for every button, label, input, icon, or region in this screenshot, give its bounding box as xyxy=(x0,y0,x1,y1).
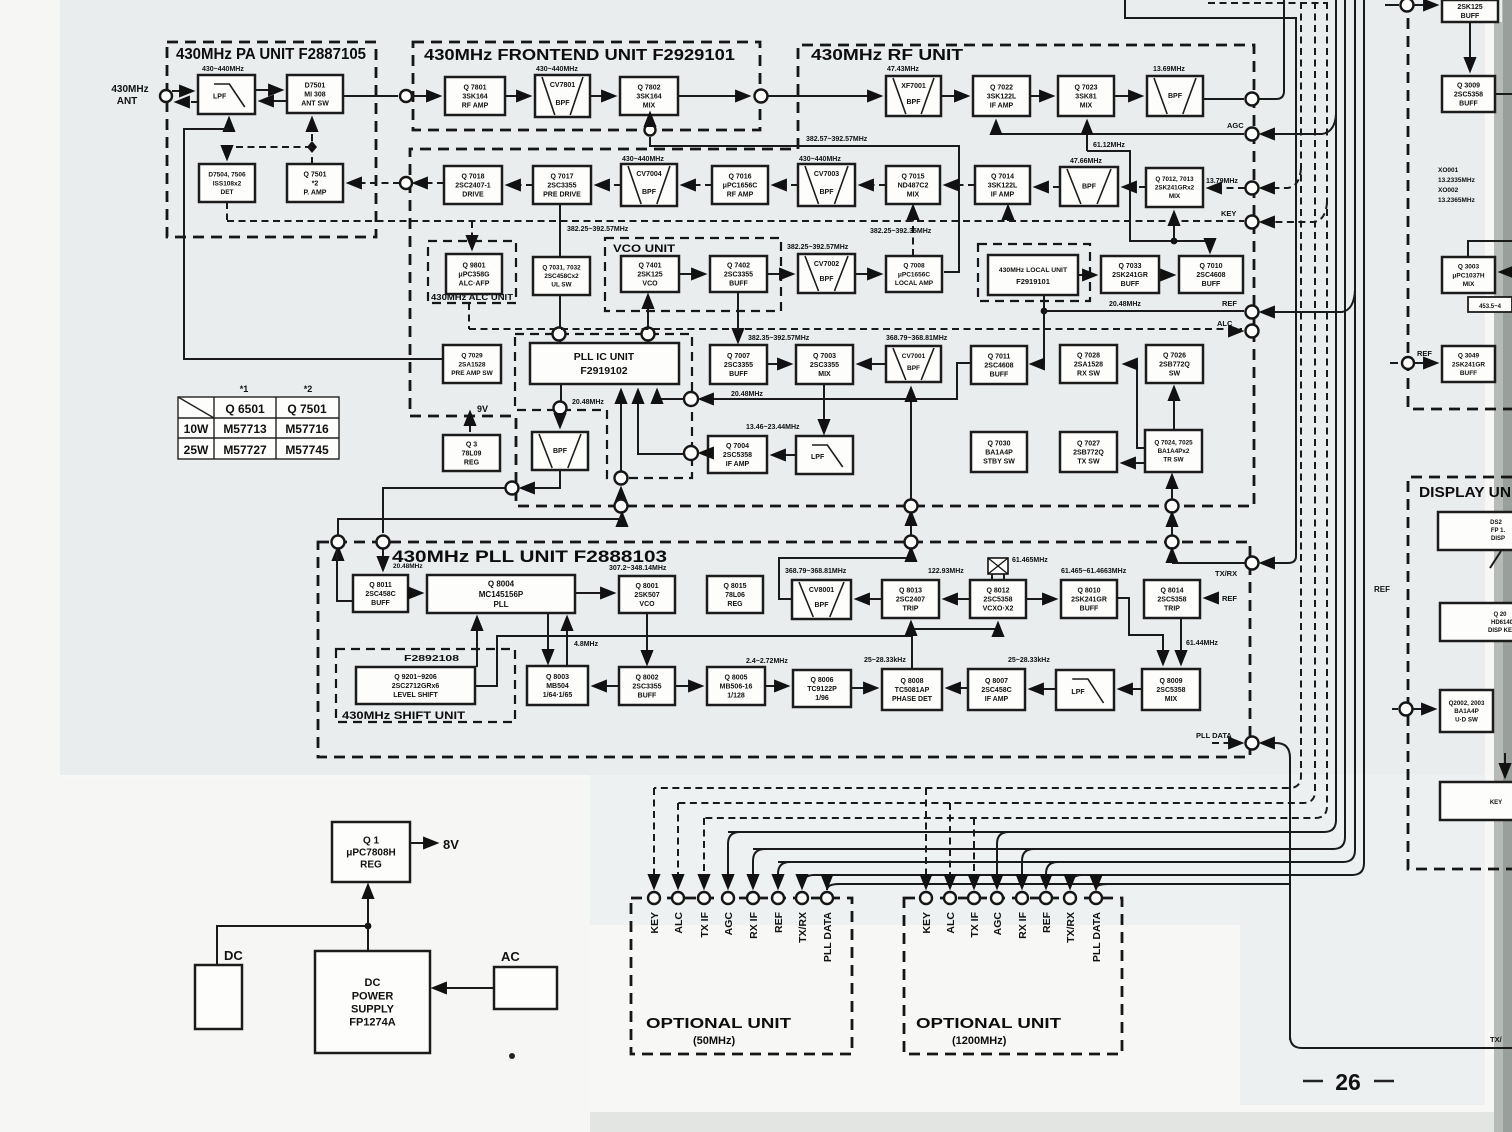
block 453.5 filter xyxy=(1468,297,1512,312)
wire pll unit 20.48 run xyxy=(338,519,622,535)
svg-text:2SC2712GRx6: 2SC2712GRx6 xyxy=(392,683,440,690)
wire Q3009 out xyxy=(1495,93,1512,95)
svg-text:Q 7026: Q 7026 xyxy=(1163,352,1186,359)
svg-text:MIX: MIX xyxy=(643,103,656,110)
wire Q7018 to node xyxy=(414,182,444,184)
svg-text:Q 7030: Q 7030 xyxy=(988,440,1011,447)
svg-text:BPF: BPF xyxy=(820,276,835,283)
svg-text:2SB772Q: 2SB772Q xyxy=(1073,449,1104,456)
wire LPF25 to Q8007 xyxy=(1030,688,1056,690)
wire node b down xyxy=(337,549,353,601)
block Q7003 xyxy=(796,345,853,384)
svg-text:TR SW: TR SW xyxy=(1163,457,1183,464)
svg-text:SUPPLY: SUPPLY xyxy=(351,1003,395,1015)
svg-text:M57713: M57713 xyxy=(223,422,267,436)
svg-text:BPF: BPF xyxy=(907,365,920,372)
wire VCXO to Q8013 xyxy=(944,598,970,600)
svg-text:RX SW: RX SW xyxy=(1077,371,1100,378)
pin AGC xyxy=(722,892,734,904)
svg-text:430MHz SHIFT UNIT: 430MHz SHIFT UNIT xyxy=(342,710,465,722)
drop TXIF u1 xyxy=(703,818,705,888)
svg-text:PLL: PLL xyxy=(493,600,508,609)
svg-text:AC: AC xyxy=(501,949,520,964)
block Q3REG xyxy=(443,435,500,471)
scanned page background tint xyxy=(55,0,1485,775)
bus dashed ALC fan xyxy=(678,2,1315,803)
bus dashed TXIF fan xyxy=(704,2,1327,818)
svg-text:Q 7801: Q 7801 xyxy=(464,84,487,91)
svg-text:*2: *2 xyxy=(304,384,313,394)
wire dot to Q1 xyxy=(367,885,369,926)
svg-text:*2: *2 xyxy=(312,180,319,187)
svg-text:ALC: ALC xyxy=(945,912,957,934)
wire TXRX up2 xyxy=(1171,515,1173,535)
block Q8001 xyxy=(619,576,675,613)
svg-text:3SK122L: 3SK122L xyxy=(987,93,1017,100)
wire Q8009 to LPF25 xyxy=(1119,688,1142,690)
svg-text:ANT: ANT xyxy=(117,96,138,107)
svg-text:Q 7028: Q 7028 xyxy=(1077,352,1100,359)
svg-text:Q 8015: Q 8015 xyxy=(724,583,747,590)
node 20.48 pll unit xyxy=(506,482,519,495)
wire LOCAL to Q7033 xyxy=(1078,274,1096,276)
svg-text:Q 7011: Q 7011 xyxy=(988,353,1011,360)
node UL SW pll xyxy=(553,328,566,341)
wire disp key arrow xyxy=(1504,753,1506,777)
svg-text:AGC: AGC xyxy=(1227,121,1244,130)
wire Q7022 to Q7023 xyxy=(1030,95,1053,97)
svg-text:2SC5358: 2SC5358 xyxy=(1454,91,1483,98)
unit boundary: OPTIONAL UNIT (1200MHz) xyxy=(904,898,1122,1054)
block Q8011 xyxy=(353,575,408,612)
wire CV7003 to Q7016 xyxy=(773,184,798,186)
wire Q7003 to LPF xyxy=(823,384,825,433)
unit boundary: 144MHz section (right, cut) xyxy=(1408,0,1512,409)
svg-text:OPTIONAL UNIT: OPTIONAL UNIT xyxy=(646,1015,791,1032)
svg-text:HD6140: HD6140 xyxy=(1491,620,1512,626)
block Q8015 xyxy=(707,576,763,613)
wire PLL IC to BPF node xyxy=(560,384,562,401)
svg-text:2SB772Q: 2SB772Q xyxy=(1159,361,1190,368)
block Q7004 xyxy=(708,436,767,473)
wire Q8001 to Q8002 xyxy=(646,613,648,664)
node TX drive xyxy=(400,177,412,189)
block Q8003 xyxy=(527,666,588,705)
wire to U-D SW xyxy=(1392,708,1398,710)
wire Q8011 to Q8004 xyxy=(408,592,422,594)
svg-text:MC145156P: MC145156P xyxy=(479,590,524,599)
svg-text:368.79~368.81MHz: 368.79~368.81MHz xyxy=(785,568,847,575)
pin TX IF xyxy=(968,892,980,904)
svg-text:2SC3355: 2SC3355 xyxy=(810,362,839,369)
svg-text:13.79MHz: 13.79MHz xyxy=(1206,178,1238,185)
wire node to 2SK125 xyxy=(1414,4,1437,6)
block Q8014 xyxy=(1144,580,1200,618)
svg-text:382.35~392.57MHz: 382.35~392.57MHz xyxy=(748,335,810,342)
svg-text:PLL IC UNIT: PLL IC UNIT xyxy=(574,351,635,363)
svg-text:LPF: LPF xyxy=(1071,689,1085,696)
svg-text:10W: 10W xyxy=(184,422,209,436)
svg-text:CV7001: CV7001 xyxy=(902,353,926,360)
svg-text:REF: REF xyxy=(1222,594,1237,603)
wire ANT SW output to frontend xyxy=(343,95,398,97)
wire levelshift q8013 arrow xyxy=(910,623,912,636)
block XF7001 xyxy=(886,76,941,116)
table PA module options xyxy=(178,384,339,459)
svg-text:2SK241GR: 2SK241GR xyxy=(1071,596,1107,603)
svg-text:2SA1528: 2SA1528 xyxy=(458,361,485,368)
svg-text:TX SW: TX SW xyxy=(1077,459,1100,466)
wire Q7012 to BPF47 xyxy=(1123,186,1146,188)
wire TRSW to Q7026 xyxy=(1173,387,1175,430)
junction REF xyxy=(1041,308,1048,315)
block Q7501 xyxy=(287,164,343,202)
svg-text:78L09: 78L09 xyxy=(462,450,482,457)
unit boundary: 430MHz ALC UNIT xyxy=(428,241,516,303)
speck xyxy=(509,1053,515,1059)
svg-text:368.79~368.81MHz: 368.79~368.81MHz xyxy=(886,335,948,342)
svg-text:430MHz PLL UNIT F2888103: 430MHz PLL UNIT F2888103 xyxy=(392,547,667,566)
svg-text:430MHz LOCAL UNIT: 430MHz LOCAL UNIT xyxy=(999,267,1068,274)
wire XF7001 to Q7022 xyxy=(941,95,968,97)
node rf bottom tx xyxy=(905,500,918,513)
svg-text:U·D SW: U·D SW xyxy=(1455,717,1478,724)
svg-text:Q 3: Q 3 xyxy=(466,441,477,448)
block Q8010 xyxy=(1061,580,1117,618)
svg-text:POWER: POWER xyxy=(352,990,394,1002)
wire PRE AMP SW feed xyxy=(184,129,443,359)
drop TXIF u2 xyxy=(973,818,975,888)
svg-text:Q 7501: Q 7501 xyxy=(287,402,327,416)
svg-text:26: 26 xyxy=(1335,1069,1361,1095)
block CV7002 xyxy=(798,254,855,293)
svg-text:CV7003: CV7003 xyxy=(814,171,839,178)
wire Q7801 to CV7801 xyxy=(505,95,530,97)
svg-text:BUFF: BUFF xyxy=(1461,13,1480,20)
node pin b xyxy=(332,536,345,549)
svg-text:CV7002: CV7002 xyxy=(814,261,839,268)
bus PLL DATA bottom xyxy=(1290,1036,1512,1048)
node pll bottom xyxy=(615,472,628,485)
svg-text:78L06: 78L06 xyxy=(725,592,745,599)
svg-text:2.4~2.72MHz: 2.4~2.72MHz xyxy=(746,658,788,665)
svg-text:20.48MHz: 20.48MHz xyxy=(731,391,763,398)
block DCBOX xyxy=(195,965,242,1029)
svg-text:2SC5358: 2SC5358 xyxy=(723,452,752,459)
block Q3003 xyxy=(1442,257,1495,293)
block Q8013 xyxy=(882,580,939,618)
terminal IF out xyxy=(1246,93,1259,106)
wire TX drive node to P.AMP xyxy=(348,182,400,184)
block Q7029 xyxy=(443,345,501,383)
svg-text:IF AMP: IF AMP xyxy=(726,461,750,468)
block LPF13 xyxy=(796,436,853,474)
svg-text:20.48MHz: 20.48MHz xyxy=(572,399,604,406)
svg-text:2SC3355: 2SC3355 xyxy=(547,182,576,189)
svg-text:BPF: BPF xyxy=(553,448,568,455)
svg-text:1/128: 1/128 xyxy=(727,693,745,700)
svg-text:430MHz RF UNIT: 430MHz RF UNIT xyxy=(811,47,963,64)
wire LPF to ANT SW xyxy=(255,89,282,91)
wire REF to Q3049 xyxy=(1415,362,1437,364)
svg-text:Q 8011: Q 8011 xyxy=(369,582,392,589)
svg-text:382.25~392.57MHz: 382.25~392.57MHz xyxy=(787,244,849,251)
pin AGC xyxy=(991,892,1003,904)
block Q7802 xyxy=(620,77,678,115)
wire Q8005 to Q8006 xyxy=(765,685,788,687)
wire diamond to ANT SW xyxy=(311,118,313,141)
svg-text:LEVEL SHIFT: LEVEL SHIFT xyxy=(393,692,438,699)
wire levelshift to Q8004 xyxy=(476,617,478,667)
wire KEY to Q7014 xyxy=(1007,206,1009,221)
wire DET to KEY line xyxy=(226,202,228,220)
svg-text:BPF: BPF xyxy=(820,189,835,196)
unit boundary: DISPLAY UNIT xyxy=(1408,477,1512,869)
wire pin to Q8011 xyxy=(382,549,384,570)
svg-text:BPF: BPF xyxy=(1168,93,1183,100)
pin PLL DATA xyxy=(821,892,833,904)
bus dashed KEY fan xyxy=(654,2,1301,788)
svg-text:430MHz: 430MHz xyxy=(111,84,148,95)
svg-text:4.8MHz: 4.8MHz xyxy=(574,641,599,648)
svg-text:Q 7501: Q 7501 xyxy=(304,171,327,178)
pin RX IF xyxy=(747,892,759,904)
wire REF to Q7011 xyxy=(1031,311,1044,364)
svg-text:IF AMP: IF AMP xyxy=(985,696,1009,703)
block Q7007 xyxy=(710,345,767,384)
svg-text:Q 3003: Q 3003 xyxy=(1458,264,1480,271)
svg-text:MIX: MIX xyxy=(1165,696,1178,703)
block LPF7500 xyxy=(198,75,255,114)
svg-text:KEY: KEY xyxy=(1490,800,1502,806)
svg-text:BUFF: BUFF xyxy=(1121,281,1140,288)
wire Q7008 to Q7015 MIX xyxy=(912,206,914,256)
svg-text:LPF: LPF xyxy=(213,94,227,101)
bus REF branch to terminal xyxy=(1261,290,1355,312)
net KEY line xyxy=(227,220,1244,222)
svg-text:PRE DRIVE: PRE DRIVE xyxy=(543,192,581,199)
wire 20.48 return up3 xyxy=(621,516,623,519)
terminal PLL DATA xyxy=(1246,737,1259,750)
svg-text:ALC: ALC xyxy=(673,912,685,934)
svg-text:BPF: BPF xyxy=(642,189,657,196)
wire ANT to LPF (TX) xyxy=(172,90,193,92)
svg-text:Q 7012, 7013: Q 7012, 7013 xyxy=(1155,176,1194,183)
svg-text:KEY: KEY xyxy=(1221,209,1236,218)
svg-text:1/96: 1/96 xyxy=(815,695,829,702)
svg-text:Q 8014: Q 8014 xyxy=(1161,587,1184,594)
svg-text:Q 7802: Q 7802 xyxy=(638,84,661,91)
wire Q7017 to Q7018 xyxy=(507,184,533,186)
wire P.AMP to diamond xyxy=(311,153,313,164)
block PSU xyxy=(315,951,430,1053)
svg-text:Q 3009: Q 3009 xyxy=(1457,82,1480,89)
wire 61.12 arrow Q7010 xyxy=(1209,244,1211,252)
node LO injection xyxy=(645,125,656,136)
svg-text:(50MHz): (50MHz) xyxy=(693,1035,736,1047)
svg-text:Q 8002: Q 8002 xyxy=(636,674,659,681)
block UDSW xyxy=(1440,690,1493,732)
wire tx offset up2 xyxy=(910,513,912,535)
svg-text:TX/RX: TX/RX xyxy=(1065,912,1077,943)
svg-text:Q 7016: Q 7016 xyxy=(729,173,752,180)
bus KEY branch xyxy=(1261,202,1327,222)
svg-text:BA1A4P: BA1A4P xyxy=(985,449,1013,456)
crystal X8001 xyxy=(988,558,1008,574)
svg-text:Q 8012: Q 8012 xyxy=(987,587,1010,594)
svg-text:2SC2407-1: 2SC2407-1 xyxy=(455,182,491,189)
svg-text:Q 8005: Q 8005 xyxy=(725,674,748,681)
svg-text:382.57~392.57MHz: 382.57~392.57MHz xyxy=(806,136,868,143)
block Q7010 xyxy=(1179,256,1243,293)
svg-text:CV8001: CV8001 xyxy=(809,587,834,594)
svg-text:TX IF: TX IF xyxy=(969,911,981,937)
wire tune to Q7401 xyxy=(647,295,649,327)
svg-text:RF AMP: RF AMP xyxy=(727,192,754,199)
svg-text:Q 3049: Q 3049 xyxy=(1458,353,1480,360)
wire Q8007 to Q8008 xyxy=(947,687,968,689)
terminal TX/RX xyxy=(1246,557,1259,570)
svg-text:TX/RX: TX/RX xyxy=(1215,569,1237,578)
svg-text:PHASE DET: PHASE DET xyxy=(892,696,933,703)
node frontend output xyxy=(755,90,768,103)
pin TX IF xyxy=(698,892,710,904)
svg-text:F2892108: F2892108 xyxy=(404,653,459,663)
svg-text:BUFF: BUFF xyxy=(990,372,1009,379)
svg-text:Q 20: Q 20 xyxy=(1493,612,1507,618)
net REF 20.48 xyxy=(1044,310,1244,312)
svg-text:Q 6501: Q 6501 xyxy=(225,402,265,416)
unit boundary: 430MHz RF UNIT (L-shape) xyxy=(410,45,1254,506)
wire ANT SW to LPF xyxy=(260,100,287,102)
wire REF to Q8014 xyxy=(1205,597,1219,599)
svg-text:BUFF: BUFF xyxy=(1459,101,1478,108)
svg-text:2SC2407: 2SC2407 xyxy=(896,596,925,603)
svg-text:Q 7023: Q 7023 xyxy=(1075,84,1098,91)
block CV7801 xyxy=(535,75,590,117)
wire 20.48 return up1 xyxy=(620,390,622,471)
svg-text:2SC4608: 2SC4608 xyxy=(1196,272,1225,279)
svg-text:OPTIONAL UNIT: OPTIONAL UNIT xyxy=(916,1015,1061,1032)
unit boundary: 430MHz SHIFT UNIT xyxy=(336,649,515,722)
wire UL SW to PLL IC xyxy=(559,295,561,343)
svg-text:REF: REF xyxy=(1041,911,1053,933)
svg-text:MIX: MIX xyxy=(1463,281,1475,288)
wire Q8013 to CV8001 xyxy=(856,598,882,600)
block Q1REG xyxy=(332,822,410,882)
svg-text:LPF: LPF xyxy=(811,454,825,461)
svg-text:13.46~23.44MHz: 13.46~23.44MHz xyxy=(746,424,800,431)
svg-text:13.2365MHz: 13.2365MHz xyxy=(1438,197,1476,204)
block TRSW xyxy=(1145,430,1202,472)
svg-text:DC: DC xyxy=(365,977,381,989)
svg-text:μPC1656C: μPC1656C xyxy=(898,271,930,278)
block Q7031 xyxy=(533,257,590,295)
wire to Q8011 col xyxy=(383,488,505,533)
block Q7011 xyxy=(971,346,1027,384)
svg-text:Q 8013: Q 8013 xyxy=(899,587,922,594)
svg-text:BA1A4P: BA1A4P xyxy=(1454,708,1478,715)
wire Q8006 to Q8008 xyxy=(851,687,877,689)
pin KEY xyxy=(920,892,932,904)
wire Q7016 to CV7004 xyxy=(682,184,712,186)
svg-text:D7501: D7501 xyxy=(305,82,326,89)
svg-text:Q 7008: Q 7008 xyxy=(903,263,925,270)
svg-text:122.93MHz: 122.93MHz xyxy=(928,568,964,575)
svg-text:MIX: MIX xyxy=(818,371,831,378)
svg-text:RX IF: RX IF xyxy=(748,911,760,938)
wire Q7033 to Q7010 xyxy=(1159,274,1174,276)
svg-text:Q 8010: Q 8010 xyxy=(1078,587,1101,594)
svg-text:TRIP: TRIP xyxy=(1164,606,1180,613)
block CV8001 xyxy=(792,580,851,619)
wire Q8003-Q8004 ret xyxy=(566,617,568,666)
net 61.12MHz xyxy=(1086,121,1088,151)
junction power xyxy=(365,923,372,930)
svg-text:Q 7018: Q 7018 xyxy=(462,173,485,180)
wire CV7002 to Q7008 xyxy=(855,273,881,275)
wire Q7011 out 20.48 xyxy=(700,363,971,399)
svg-text:UL SW: UL SW xyxy=(551,282,571,289)
pin TX/RX xyxy=(796,892,808,904)
terminal KEY xyxy=(1246,216,1259,229)
pin TX/RX xyxy=(1064,892,1076,904)
wire BPF to IF node xyxy=(1203,98,1244,100)
wire 20.48 from pll unit xyxy=(337,535,339,549)
block Q7016 xyxy=(712,166,768,204)
block BPF20 xyxy=(532,432,588,470)
svg-text:47.43MHz: 47.43MHz xyxy=(887,66,919,73)
block LVLS xyxy=(356,667,475,704)
svg-text:382.25~392.57MHz: 382.25~392.57MHz xyxy=(567,226,629,233)
svg-text:307.2~348.14MHz: 307.2~348.14MHz xyxy=(609,565,667,572)
pin REF xyxy=(772,892,784,904)
svg-text:BPF: BPF xyxy=(907,99,922,106)
svg-text:REG: REG xyxy=(464,460,480,467)
svg-text:Q 7402: Q 7402 xyxy=(727,262,750,269)
node IF to PLLIC xyxy=(684,446,698,460)
wire node to UDSW xyxy=(1413,708,1435,710)
svg-text:VCXO·X2: VCXO·X2 xyxy=(983,606,1014,613)
block Q8002 xyxy=(619,667,675,705)
svg-text:Q 7022: Q 7022 xyxy=(990,84,1013,91)
svg-text:3SK81: 3SK81 xyxy=(1075,93,1097,100)
svg-text:61.12MHz: 61.12MHz xyxy=(1093,142,1125,149)
pin PLL DATA xyxy=(1090,892,1102,904)
block Q3049 xyxy=(1442,346,1495,382)
svg-text:TX/RX: TX/RX xyxy=(797,912,809,943)
wire KEY to ALC-AFP xyxy=(471,221,473,249)
svg-text:DC: DC xyxy=(224,948,243,963)
page number 26 xyxy=(1303,1080,1394,1083)
svg-text:Q 7010: Q 7010 xyxy=(1200,263,1223,270)
block Q8007 xyxy=(968,669,1025,710)
svg-text:3SK122L: 3SK122L xyxy=(988,182,1018,189)
svg-text:25~28.33kHz: 25~28.33kHz xyxy=(864,657,906,664)
block Q7030 xyxy=(971,432,1027,472)
block Q7033 xyxy=(1101,256,1159,293)
block Q7008 xyxy=(886,256,942,292)
node pll top trx xyxy=(1166,536,1179,549)
svg-text:Q 8006: Q 8006 xyxy=(811,677,834,684)
pin ALC xyxy=(672,892,684,904)
drop AGC u2 xyxy=(997,832,1009,888)
svg-text:XF7001: XF7001 xyxy=(901,83,926,90)
block BPF47 xyxy=(1060,167,1118,206)
pin REF xyxy=(1040,892,1052,904)
svg-text:Q 8007: Q 8007 xyxy=(985,678,1008,685)
node display ref xyxy=(1400,703,1413,716)
